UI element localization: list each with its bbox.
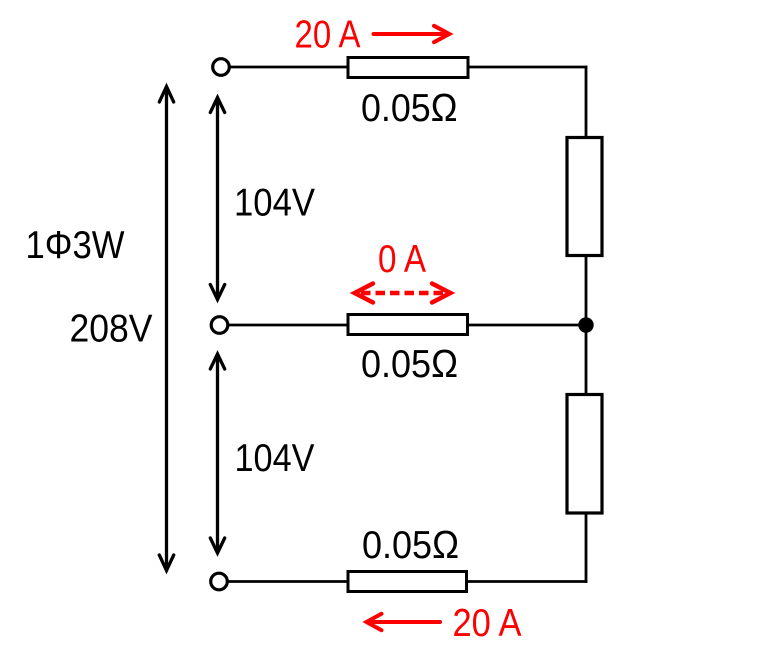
current arrow 20A top (red, right) [374, 26, 450, 42]
svg-text:0 A: 0 A [378, 238, 426, 281]
svg-text:1Φ3W: 1Φ3W [26, 224, 125, 267]
resistor 0.05 ohm top [348, 58, 468, 78]
svg-text:104V: 104V [235, 437, 315, 480]
resistor 0.05 ohm bottom [348, 572, 467, 592]
svg-text:0.05Ω: 0.05Ω [362, 524, 459, 567]
voltage arrow 104V lower double-headed [210, 354, 224, 553]
resistor 0.05 ohm middle [348, 315, 468, 335]
wire top line right [466, 66, 587, 69]
svg-text:0.05Ω: 0.05Ω [361, 87, 458, 130]
load resistor upper [567, 138, 602, 256]
wire top line left [230, 66, 351, 69]
voltage arrow 104V upper double-headed [210, 98, 224, 300]
current arrow 0A middle (red, dashed, double-headed) [355, 284, 451, 303]
current arrow 20A bottom (red, left) [367, 614, 441, 630]
wire top right vertical [585, 66, 588, 139]
svg-text:0.05Ω: 0.05Ω [361, 343, 458, 386]
junction node dot [578, 317, 593, 332]
svg-text:20 A: 20 A [453, 602, 522, 645]
wire middle line right [466, 324, 587, 327]
wire bottom line right [465, 580, 587, 583]
wire bottom line left [228, 580, 351, 583]
terminal circle middle [211, 317, 228, 334]
svg-text:20 A: 20 A [295, 14, 361, 57]
svg-text:208V: 208V [70, 308, 153, 351]
wire middle line left [228, 324, 350, 327]
wire vertical between loads [585, 254, 588, 396]
load resistor lower [567, 395, 602, 514]
terminal circle bottom [211, 573, 228, 590]
svg-text:104V: 104V [234, 182, 315, 225]
voltage arrow 208V double-headed [159, 87, 173, 571]
terminal circle top [213, 59, 230, 76]
wire bottom right vertical [585, 512, 588, 583]
